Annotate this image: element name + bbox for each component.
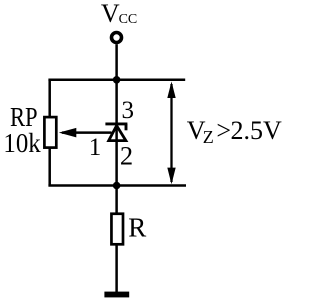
dimension arrow VZ	[167, 82, 175, 185]
svg-text:1: 1	[89, 134, 102, 161]
VCC terminal circle	[112, 33, 122, 43]
wire: bottom horizontal rail	[48, 184, 186, 187]
junction node A (top)	[113, 76, 121, 84]
wire: VCC terminal to top node	[115, 44, 118, 80]
wire: left vertical branch	[48, 80, 51, 186]
svg-text:>: >	[216, 116, 231, 145]
svg-text:2.5V: 2.5V	[231, 116, 283, 145]
svg-text:CC: CC	[119, 12, 138, 27]
wire: top horizontal rail	[48, 79, 185, 82]
svg-text:Z: Z	[203, 127, 214, 147]
regulator U1 cathode bar end tick	[125, 124, 128, 130]
label VZ>2.5V	[187, 116, 282, 147]
node VCC label	[101, 0, 137, 28]
potentiometer RP body	[44, 117, 56, 148]
ground	[104, 292, 129, 298]
wire: main vertical through U1	[115, 80, 118, 186]
resistor R body	[111, 214, 123, 245]
regulator U1 triangle	[109, 126, 126, 141]
svg-text:2: 2	[120, 141, 133, 171]
regulator U1 (TL431) cathode bar	[105, 122, 127, 125]
wire: node B to resistor R to ground	[115, 186, 118, 293]
svg-text:10k: 10k	[3, 128, 41, 158]
svg-text:V: V	[101, 0, 120, 28]
wiper arrow of RP (pin 1 wire)	[59, 128, 112, 138]
svg-text:3: 3	[122, 97, 135, 124]
svg-text:R: R	[128, 213, 146, 243]
junction node B (bottom)	[113, 182, 121, 190]
